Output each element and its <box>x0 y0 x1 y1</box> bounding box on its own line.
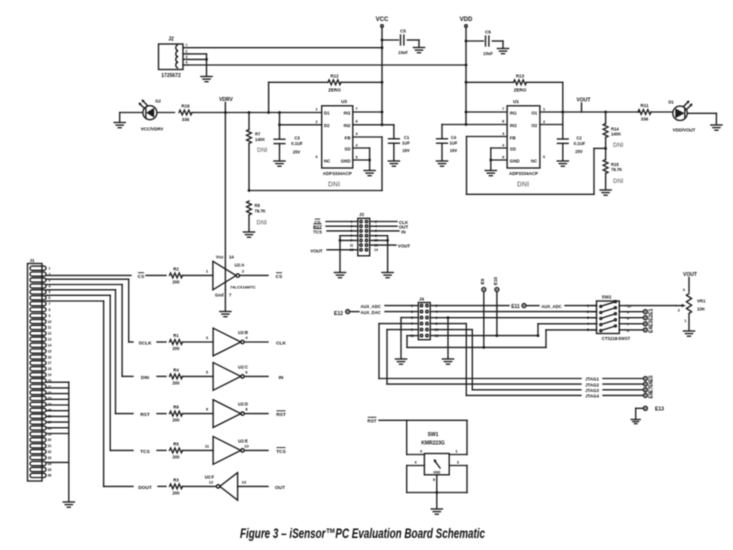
wire JTAG4 <box>466 394 581 396</box>
svg-text:12: 12 <box>48 332 52 336</box>
svg-text:IN1: IN1 <box>510 110 517 115</box>
svg-text:140K: 140K <box>611 132 621 137</box>
svg-text:13: 13 <box>48 338 52 342</box>
wire J4 pin8 to JTAG4 <box>430 323 466 325</box>
wire SW1 pin5 to ground <box>436 475 438 509</box>
wire TCS to J3 pin5 <box>327 230 358 232</box>
wire J3 pin4 to OUT <box>370 225 397 227</box>
svg-text:200: 200 <box>172 418 180 423</box>
wire J1 to gate U2:D <box>46 289 116 291</box>
svg-text:R5: R5 <box>173 441 179 446</box>
wire J4 pin12 to SW2 pin4 <box>430 335 538 337</box>
resistor R1 <box>170 340 183 345</box>
svg-text:VOUT: VOUT <box>398 244 411 249</box>
resistor R14 <box>604 111 607 114</box>
svg-text:DNI: DNI <box>257 148 268 154</box>
svg-text:8: 8 <box>49 308 51 312</box>
svg-text:DNI: DNI <box>257 221 268 227</box>
wire J1 to gate U2F <box>46 300 104 302</box>
svg-text:R2: R2 <box>173 266 179 271</box>
wire J3 pin6 to IN <box>370 230 399 232</box>
svg-text:336: 336 <box>641 117 649 122</box>
terminal E6 <box>643 382 647 386</box>
svg-text:R11: R11 <box>640 103 649 108</box>
svg-text:E2: E2 <box>649 314 655 320</box>
svg-text:VDD/VOUT: VDD/VOUT <box>673 128 696 133</box>
svg-text:2: 2 <box>587 310 589 314</box>
capacitor C3 <box>279 113 281 139</box>
inverter U2:B <box>213 328 241 356</box>
wire G2 to R16 <box>157 112 175 114</box>
svg-text:E12: E12 <box>334 311 343 317</box>
capacitor C2 <box>562 125 564 139</box>
svg-text:14: 14 <box>374 248 378 252</box>
ground at C4 <box>436 160 447 162</box>
wire J4 pin9 to JTAG2 <box>387 329 418 331</box>
wire R13 to VOUT rail <box>562 82 564 124</box>
svg-text:IN: IN <box>401 229 405 234</box>
ground below J2 <box>201 76 212 78</box>
terminal E4 <box>626 329 644 331</box>
wire J4 pin6 to SW2 pin3 <box>430 317 596 319</box>
svg-text:TCS: TCS <box>140 449 150 455</box>
svg-text:IN1: IN1 <box>344 110 351 115</box>
svg-text:10: 10 <box>48 320 52 324</box>
svg-text:R7: R7 <box>255 132 261 137</box>
svg-text:7: 7 <box>355 107 357 111</box>
svg-text:2: 2 <box>186 49 188 53</box>
svg-text:E10: E10 <box>493 276 498 285</box>
wire U2:B output <box>244 341 268 343</box>
wire JTAG2 <box>387 383 581 385</box>
wire J4 pin11 <box>407 335 418 337</box>
svg-text:7: 7 <box>49 302 51 306</box>
svg-text:DNI: DNI <box>613 179 624 185</box>
svg-text:CLK: CLK <box>276 340 286 346</box>
svg-text:4: 4 <box>186 60 188 64</box>
svg-text:GND: GND <box>341 158 351 163</box>
svg-text:C5: C5 <box>400 29 406 34</box>
svg-text:E1: E1 <box>649 308 655 314</box>
wire J4 pin10 to JTAG3 <box>430 329 472 331</box>
wire J3 pin9 to ground bus <box>340 239 358 241</box>
svg-text:31: 31 <box>48 444 52 448</box>
capacitor C1 <box>393 125 395 139</box>
wire J1 to gate U2:B <box>46 278 129 280</box>
svg-text:1725672: 1725672 <box>161 73 181 79</box>
svg-text:FB: FB <box>510 135 516 140</box>
wire VCC vertical rail <box>381 27 383 125</box>
svg-text:R16: R16 <box>181 104 190 109</box>
svg-text:12: 12 <box>209 480 214 485</box>
LED G2 <box>143 106 157 120</box>
wire J4 pin4 to SW2 pin2 <box>430 311 596 313</box>
wire VOUT to J3 pin13 <box>327 249 358 251</box>
op-amp regulator U1 ADP3334ACP <box>507 106 540 168</box>
ground right of J3 <box>382 272 393 274</box>
svg-text:336: 336 <box>182 117 190 122</box>
switch SW1 body <box>424 454 449 475</box>
wire U1 pin5 GND <box>491 159 507 161</box>
svg-text:CTS218-5WST: CTS218-5WST <box>602 336 631 341</box>
svg-text:CS: CS <box>276 274 283 280</box>
svg-text:SD: SD <box>510 146 516 151</box>
svg-text:E11: E11 <box>511 304 520 310</box>
terminal E5 <box>643 377 647 381</box>
svg-text:RST: RST <box>367 418 376 423</box>
ground at C6 <box>497 48 508 50</box>
svg-text:R8: R8 <box>255 203 261 208</box>
svg-text:JTAG4: JTAG4 <box>585 394 599 399</box>
ground at C2 <box>557 160 568 162</box>
wire U3 pin4 SD <box>353 147 370 149</box>
svg-text:1UF: 1UF <box>450 141 458 146</box>
svg-text:200: 200 <box>172 279 180 284</box>
svg-text:200: 200 <box>172 346 180 351</box>
wire VDD vertical rail <box>465 27 467 124</box>
svg-text:16: 16 <box>48 355 52 359</box>
inverter U2A 74LCX14MTC <box>213 261 236 290</box>
svg-text:R3: R3 <box>173 477 179 482</box>
inverter U2:C <box>213 363 241 391</box>
svg-text:J3: J3 <box>359 212 365 217</box>
wire U1 pin8 IN2 to C4 <box>442 124 507 126</box>
ground at D1 <box>711 124 722 126</box>
wire U2:E output <box>244 449 268 451</box>
wire J1 to gate U2A <box>46 274 131 276</box>
LED D1 <box>673 106 687 120</box>
wire SW2 pin10 to VR1 wiper <box>626 305 677 307</box>
resistor R16 <box>179 110 192 115</box>
wire R16 to U3 pin 1 (VDRV rail) <box>192 112 322 114</box>
svg-text:R4: R4 <box>173 367 179 372</box>
wire J3 pin8 to ground <box>370 235 388 237</box>
svg-text:VDRV: VDRV <box>219 97 233 103</box>
capacitor C5 <box>382 39 399 41</box>
svg-text:25V: 25V <box>575 149 583 154</box>
svg-text:78.7K: 78.7K <box>255 209 266 214</box>
svg-text:0.1UF: 0.1UF <box>574 141 586 146</box>
svg-text:14: 14 <box>229 255 234 260</box>
ground at E13 <box>631 419 640 421</box>
terminal E3 <box>626 323 644 325</box>
svg-text:5: 5 <box>587 328 589 332</box>
svg-text:JTAG1: JTAG1 <box>585 377 599 382</box>
svg-text:AUX_ADC: AUX_ADC <box>541 304 561 309</box>
svg-text:6: 6 <box>315 155 317 159</box>
svg-text:E9: E9 <box>480 278 485 284</box>
wire J2 pin1 to VCC rail <box>188 47 382 49</box>
terminal E1 <box>626 311 644 313</box>
svg-text:16V: 16V <box>450 148 458 153</box>
svg-text:33: 33 <box>48 456 52 460</box>
svg-text:R9: R9 <box>173 405 179 410</box>
svg-text:36: 36 <box>48 474 52 478</box>
wire ground to G2 <box>120 112 143 114</box>
svg-text:ZERO: ZERO <box>328 88 341 93</box>
wire VDRV to U2A Vcc pin 14 <box>224 113 226 290</box>
wire U1 pin1 O1 output rail <box>540 111 640 113</box>
svg-text:KMR223G: KMR223G <box>421 441 445 447</box>
svg-text:C2: C2 <box>576 136 582 141</box>
svg-text:O1: O1 <box>531 110 537 115</box>
resistor R2 <box>170 273 183 278</box>
terminal E13 <box>643 406 647 410</box>
svg-text:R12: R12 <box>330 74 339 79</box>
svg-text:5: 5 <box>49 290 51 294</box>
svg-text:RST: RST <box>276 412 286 418</box>
svg-text:13: 13 <box>242 480 247 485</box>
svg-text:RST: RST <box>140 412 150 418</box>
svg-text:SCLK: SCLK <box>138 340 152 346</box>
ground at J1 <box>63 501 74 503</box>
svg-text:C3: C3 <box>294 136 300 141</box>
svg-text:SW1: SW1 <box>428 432 439 438</box>
wire U1 pin7 IN1 from VDD <box>466 111 507 113</box>
svg-text:8: 8 <box>355 119 357 123</box>
svg-text:U1: U1 <box>513 99 519 104</box>
svg-text:VDD: VDD <box>460 17 473 23</box>
svg-text:DNI: DNI <box>328 182 340 189</box>
svg-text:IN2: IN2 <box>344 123 351 128</box>
ground at U3 <box>364 170 375 172</box>
ground at C5 <box>413 47 424 49</box>
svg-text:E13: E13 <box>655 407 664 413</box>
svg-text:J4: J4 <box>419 297 425 302</box>
terminal E2 <box>626 317 644 319</box>
svg-text:78.7K: 78.7K <box>611 167 622 172</box>
wire J4 pin2 <box>430 305 509 307</box>
svg-text:ZERO: ZERO <box>514 88 527 93</box>
wire J3 pin12 to VOUT <box>370 244 396 246</box>
wire AUX_ADC to J4 pin1 <box>385 305 418 307</box>
svg-text:E5: E5 <box>649 375 655 381</box>
wire CS to J3 pin1 <box>326 221 358 223</box>
svg-text:JTAG2: JTAG2 <box>585 382 599 387</box>
wire AUX_DAC to J4 pin3 <box>385 311 418 313</box>
ground at C3 <box>274 160 285 162</box>
svg-text:2: 2 <box>543 120 545 124</box>
svg-text:E8: E8 <box>649 392 655 398</box>
svg-text:19: 19 <box>48 373 52 377</box>
wire U3 pin7 IN1 to VCC <box>353 111 382 113</box>
resistor R7 <box>248 113 250 130</box>
resistor R3 <box>170 484 183 489</box>
wire J2 pin4 to VDD rail <box>188 64 466 66</box>
ground at SW1 <box>431 508 442 510</box>
svg-text:TCS: TCS <box>313 229 322 234</box>
svg-text:VOUT: VOUT <box>310 249 323 254</box>
ground at VR1 <box>683 330 694 332</box>
svg-text:C6: C6 <box>485 30 491 35</box>
wire U1 pin3 FB loop <box>467 136 508 138</box>
wire J1 to gate U2:E <box>46 294 110 296</box>
wire U3 pin3 FB loop <box>353 136 382 138</box>
svg-text:ADP3334ACP: ADP3334ACP <box>323 171 352 176</box>
svg-text:IN: IN <box>279 375 284 381</box>
svg-text:JTAG3: JTAG3 <box>585 388 599 393</box>
inverter U2F (reversed) <box>220 473 238 501</box>
ground at U2A <box>220 311 231 313</box>
svg-text:3: 3 <box>587 316 589 320</box>
ground at U1 <box>485 170 496 172</box>
resistor R12 <box>269 81 328 83</box>
resistor R8 <box>247 201 252 215</box>
svg-text:O2: O2 <box>531 123 537 128</box>
svg-text:G2: G2 <box>155 99 161 104</box>
svg-text:DNI: DNI <box>517 182 529 189</box>
svg-text:10uF: 10uF <box>483 51 493 56</box>
ground right below J4 <box>442 358 453 360</box>
svg-text:R13: R13 <box>516 74 525 79</box>
ground left of J3 <box>334 272 345 274</box>
svg-text:18: 18 <box>48 367 52 371</box>
svg-text:E4: E4 <box>649 327 655 333</box>
svg-text:10: 10 <box>244 444 249 449</box>
svg-text:D1: D1 <box>668 100 674 105</box>
resistor R5 <box>170 448 183 453</box>
op-amp regulator U3 ADP3334ACP <box>322 106 353 168</box>
wire E9 bus to SW2 pin5 <box>407 346 546 348</box>
wire AUX_ADC to SW2 pin1 <box>565 305 597 307</box>
svg-text:1: 1 <box>49 267 51 271</box>
svg-text:IN2: IN2 <box>510 123 517 128</box>
svg-text:35: 35 <box>48 468 52 472</box>
switch SW1 lower loop <box>407 465 425 467</box>
svg-text:VOUT: VOUT <box>683 272 697 278</box>
svg-text:C4: C4 <box>451 135 457 140</box>
svg-text:17: 17 <box>48 361 52 365</box>
wire RST to J3 pin3 <box>326 225 358 227</box>
resistor R13 <box>466 81 514 83</box>
svg-text:1UF: 1UF <box>402 141 410 146</box>
ground at G2 LED <box>119 113 121 123</box>
svg-text:15: 15 <box>48 349 52 353</box>
svg-text:30: 30 <box>48 438 52 442</box>
svg-text:DIN: DIN <box>141 375 150 381</box>
svg-text:TCS: TCS <box>276 449 286 455</box>
wire U3 pin8 IN2 to C1 <box>353 124 394 126</box>
resistor R11 <box>638 110 651 115</box>
svg-text:3: 3 <box>186 55 188 59</box>
svg-text:VR1: VR1 <box>697 299 706 304</box>
svg-text:E3: E3 <box>649 321 655 327</box>
wire U2F input <box>238 485 268 487</box>
svg-text:16V: 16V <box>402 148 410 153</box>
wire J4 pin7 to JTAG1 <box>379 323 418 325</box>
svg-text:8: 8 <box>502 119 504 123</box>
svg-text:J2: J2 <box>168 37 174 43</box>
svg-text:J1: J1 <box>29 258 35 263</box>
svg-text:DNI: DNI <box>613 143 624 149</box>
svg-text:NC: NC <box>324 158 331 163</box>
resistor R4 <box>170 374 183 379</box>
svg-text:E7: E7 <box>649 387 655 393</box>
svg-text:AUX_DAC: AUX_DAC <box>361 310 381 315</box>
svg-text:10K: 10K <box>697 307 706 312</box>
svg-text:6: 6 <box>543 155 545 159</box>
ground at R15 <box>600 189 611 191</box>
svg-text:11: 11 <box>48 326 52 330</box>
svg-text:9: 9 <box>49 314 51 318</box>
switch SW1 KMR223G upper loop <box>407 419 467 421</box>
wire RST to SW1 <box>379 419 407 421</box>
wire U3 pin2 D2 <box>280 124 322 126</box>
resistor R9 <box>170 411 183 416</box>
svg-text:200: 200 <box>172 490 180 495</box>
svg-text:4: 4 <box>587 322 589 326</box>
terminal E7 <box>643 388 647 392</box>
svg-text:SW2: SW2 <box>602 295 612 300</box>
svg-text:Figure 3 – iSensor™PC Evaluati: Figure 3 – iSensor™PC Evaluation Board S… <box>240 525 485 541</box>
svg-text:74LCX14MTC: 74LCX14MTC <box>230 284 256 289</box>
svg-text:1: 1 <box>315 107 317 111</box>
svg-text:AUX_ADC: AUX_ADC <box>361 304 381 309</box>
svg-text:200: 200 <box>172 380 180 385</box>
inverter U2:D <box>213 400 241 428</box>
wire JTAG1 <box>379 378 581 380</box>
wire J3 pin10 <box>370 239 388 241</box>
svg-text:ADP3334ACP: ADP3334ACP <box>509 171 538 176</box>
svg-text:C1: C1 <box>404 135 410 140</box>
svg-text:7: 7 <box>502 107 504 111</box>
svg-text:3: 3 <box>355 132 357 136</box>
svg-text:25V: 25V <box>293 150 301 155</box>
svg-text:GND: GND <box>433 470 441 474</box>
svg-text:0.1UF: 0.1UF <box>291 141 303 146</box>
wire U3 pin5 GND <box>353 159 370 161</box>
wire U1 pin2 O2 to C2 <box>540 124 563 126</box>
svg-text:5: 5 <box>355 155 357 159</box>
wire U2A output <box>240 274 269 276</box>
svg-text:U2:F: U2:F <box>205 475 215 480</box>
svg-text:14: 14 <box>48 344 52 348</box>
wire JTAG3 <box>472 389 581 391</box>
svg-text:D1: D1 <box>324 110 330 115</box>
resistor R15 <box>605 148 607 159</box>
ground left below J4 <box>395 358 406 360</box>
svg-text:10uF: 10uF <box>398 50 408 55</box>
capacitor C6 <box>466 40 484 42</box>
svg-text:2: 2 <box>315 120 317 124</box>
inverter U2:E <box>213 437 241 465</box>
svg-text:CS: CS <box>138 274 145 280</box>
svg-text:GND: GND <box>510 158 520 163</box>
ground at R8 <box>243 231 254 233</box>
wire J2 pin2 <box>188 53 207 55</box>
wire U2:D output <box>244 413 268 415</box>
svg-text:1: 1 <box>186 43 188 47</box>
svg-text:Gnd: Gnd <box>215 293 224 298</box>
svg-text:3: 3 <box>502 132 504 136</box>
svg-text:U3: U3 <box>341 99 347 104</box>
wire J3 pin2 to CLK <box>370 221 397 223</box>
svg-text:D2: D2 <box>324 123 330 128</box>
svg-text:VCC/VDRV: VCC/VDRV <box>141 127 164 132</box>
svg-text:32: 32 <box>48 450 52 454</box>
wire J1 bus to ground <box>68 382 70 502</box>
wire R12 to VDRV rail <box>268 82 270 112</box>
svg-text:6: 6 <box>49 296 51 300</box>
wire J3 pin7 to ground <box>340 235 358 237</box>
potentiometer VR1 10K <box>686 294 691 314</box>
svg-text:FB: FB <box>345 135 351 140</box>
wire U2:C output <box>244 375 268 377</box>
wire J2 pin3 <box>188 58 207 60</box>
wire J1 to gate U2:C <box>46 284 122 286</box>
svg-text:NC: NC <box>531 158 538 163</box>
terminal E8 <box>643 393 647 397</box>
